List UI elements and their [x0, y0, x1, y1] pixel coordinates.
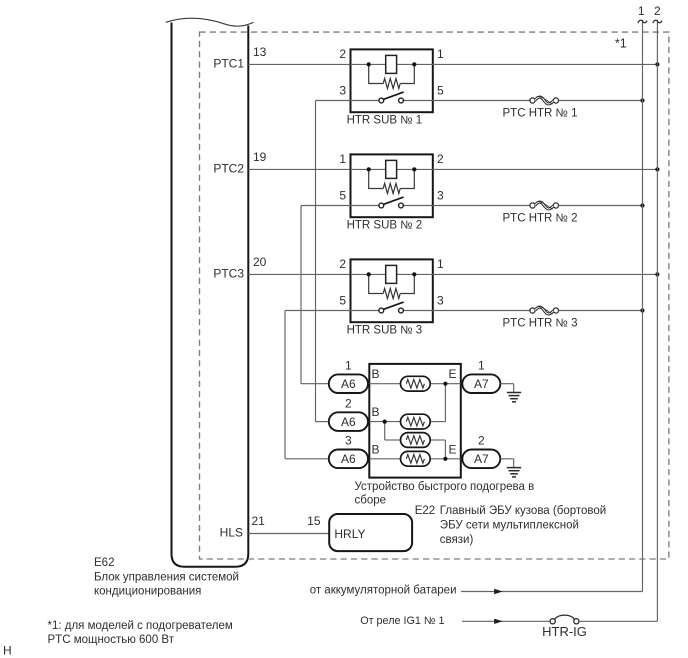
wire relay 1 switch to A6 pin 2 (vertical drop)	[315, 101, 317, 422]
wire heater row 1 left	[369, 383, 400, 385]
svg-text:От реле IG1 № 1: От реле IG1 № 1	[360, 615, 444, 627]
svg-text:E22: E22	[415, 505, 435, 517]
wire relay 3 switch to A6 pin 3 (vertical drop)	[284, 311, 286, 459]
svg-text:PTC мощностью 600 Вт: PTC мощностью 600 Вт	[48, 634, 175, 646]
junction dot on vertical net 2 row 1	[655, 62, 659, 66]
heater element resistor 2	[401, 414, 431, 429]
relay 3 switch blade	[383, 302, 404, 310]
svg-text:1: 1	[478, 359, 485, 373]
svg-text:B: B	[372, 405, 380, 419]
wire fusible link 1 to net 1	[559, 100, 643, 102]
relay 1 resistor zigzag	[383, 79, 400, 89]
connector A6 pin 1	[329, 374, 368, 393]
net 1 vertical wire (battery feed)	[642, 20, 644, 592]
svg-text:20: 20	[253, 255, 267, 269]
svg-text:2: 2	[654, 4, 661, 18]
wire switch row inside relay 2 left	[351, 205, 379, 207]
wire PTC1 pin 13 to relay coil	[248, 63, 350, 65]
wire relay 3 switch to A6 pin 3 (horizontal from relay)	[285, 310, 351, 312]
E62 A/C control ECU connector outline	[172, 23, 249, 567]
junction dot relay 3 coil right	[412, 272, 416, 276]
svg-text:от аккумуляторной батареи: от аккумуляторной батареи	[310, 584, 457, 596]
wire A7 pin 2 to ground	[500, 458, 513, 460]
junction dot relay 1 coil left	[367, 62, 371, 66]
svg-text:PTC HTR № 3: PTC HTR № 3	[503, 318, 578, 330]
relay 3 resistor zigzag	[383, 289, 400, 299]
heater element resistor 1	[401, 376, 431, 391]
svg-text:E: E	[449, 367, 457, 381]
svg-text:A7: A7	[474, 377, 489, 391]
svg-text:E62: E62	[94, 557, 114, 569]
wire relay 2 switch output to fusible link	[433, 205, 530, 207]
wire B-node vertical rows 2-3	[384, 422, 386, 440]
wire relay 2 coil output to net 2	[433, 168, 658, 170]
junction dot on vertical net 1 row 3	[640, 308, 644, 312]
svg-text:13: 13	[253, 45, 267, 59]
net 2 vertical wire (IG1 feed)	[656, 20, 658, 622]
svg-text:5: 5	[339, 188, 346, 202]
wire heater row 3 right	[430, 439, 445, 441]
wire heater row 1 right to E node	[430, 383, 461, 385]
continuation squiggle net 2	[653, 20, 662, 23]
wire PTC3 pin 20 to relay coil	[248, 273, 350, 275]
arrow battery feed	[494, 589, 502, 594]
fusible link PTC HTR № 2	[530, 203, 535, 208]
svg-text:PTC HTR № 2: PTC HTR № 2	[503, 213, 578, 225]
relay 1 parallel resistor loop	[369, 64, 384, 83]
wire relay 2 switch to A6 pin 1 (vertical drop)	[300, 206, 302, 384]
relay 3 switch contact right	[399, 308, 404, 313]
svg-text:HTR SUB № 3: HTR SUB № 3	[347, 325, 423, 337]
relay 1 switch blade	[383, 92, 404, 100]
svg-text:PTC3: PTC3	[213, 267, 244, 281]
svg-text:E: E	[449, 442, 457, 456]
svg-text:связи): связи)	[440, 534, 474, 546]
svg-text:2: 2	[345, 396, 352, 410]
svg-text:1: 1	[437, 47, 444, 61]
heater element resistor 4	[401, 451, 431, 466]
svg-text:1: 1	[345, 359, 352, 373]
svg-text:B: B	[372, 367, 380, 381]
relay 3 switch contact left	[379, 308, 384, 313]
fusible link PTC HTR № 3	[530, 308, 535, 313]
junction dot relay 3 coil left	[367, 272, 371, 276]
wire coil row inside relay 1	[351, 63, 433, 65]
junction dot B node row2	[383, 420, 387, 424]
svg-text:B: B	[372, 442, 380, 456]
wire relay 1 switch output to fusible link	[433, 100, 530, 102]
junction dot relay 2 coil left	[367, 167, 371, 171]
svg-text:15: 15	[307, 514, 321, 528]
svg-text:1: 1	[638, 4, 645, 18]
wire switch row inside relay 3 left	[351, 310, 379, 312]
junction dot relay 2 coil right	[412, 167, 416, 171]
wire heater row 4 right to E node	[430, 458, 461, 460]
svg-text:21: 21	[252, 514, 266, 528]
relay 2 switch contact right	[399, 203, 404, 208]
relay 2 parallel resistor loop	[369, 169, 384, 188]
relay 1 coil winding	[386, 55, 397, 73]
svg-text:кондиционирования: кондиционирования	[94, 585, 201, 597]
relay U3 HTR SUB № 3 box	[351, 259, 433, 322]
svg-text:HRLY: HRLY	[334, 527, 365, 541]
svg-text:Устройство быстрого подогрева: Устройство быстрого подогрева в	[355, 481, 535, 493]
wire PTC2 pin 19 to relay coil	[248, 168, 350, 170]
junction dot E node row1	[443, 382, 447, 386]
svg-text:5: 5	[339, 293, 346, 307]
svg-text:A7: A7	[474, 452, 489, 466]
wire fusible link 3 to net 1	[559, 310, 643, 312]
relay 3 coil winding	[386, 265, 397, 283]
junction dot on vertical net 1 row 1	[640, 98, 644, 102]
svg-text:сборе: сборе	[355, 495, 387, 507]
relay 3 parallel resistor loop	[369, 274, 384, 293]
svg-text:1: 1	[339, 152, 346, 166]
wire relay 3 coil output to net 2	[433, 273, 658, 275]
wire coil row inside relay 3	[351, 273, 433, 275]
dashed option box (*1 600W PTC heater models)	[200, 32, 669, 559]
junction dot on vertical net 2 row 2	[655, 167, 659, 171]
svg-text:PTC2: PTC2	[213, 162, 244, 176]
wire relay 2 switch to A6 pin 1 (horizontal from relay)	[301, 205, 351, 207]
ground symbol 1	[507, 392, 521, 394]
relay 2 switch blade	[383, 197, 404, 205]
fuse HTR-IG	[550, 619, 555, 624]
svg-text:A6: A6	[341, 415, 356, 429]
connector A6 pin 3	[329, 450, 368, 469]
arrow IG1 feed	[494, 619, 502, 624]
E62 torn-edge wavy top	[166, 18, 254, 26]
svg-text:2: 2	[478, 434, 485, 448]
wire heater row 4 left	[369, 458, 400, 460]
relay U1 HTR SUB № 1 box	[351, 49, 433, 112]
wire coil row inside relay 2	[351, 168, 433, 170]
wire heater row 2 left	[369, 421, 400, 423]
wire switch row inside relay 3 right	[403, 310, 432, 312]
wire E-node vertical rows 1-2	[444, 384, 446, 422]
wire vertical rows 3-4	[444, 440, 446, 459]
relay 2 switch contact left	[379, 203, 384, 208]
wire HLS pin 21 to HRLY pin 15	[248, 533, 329, 535]
junction dot on vertical net 2 row 3	[655, 272, 659, 276]
svg-text:Главный ЭБУ кузова (бортовой: Главный ЭБУ кузова (бортовой	[440, 505, 606, 517]
ground symbol 2	[507, 467, 521, 469]
svg-text:3: 3	[339, 83, 346, 97]
wire heater row 2 right	[430, 421, 445, 423]
connector A7 pin 2	[462, 450, 500, 469]
svg-text:ЭБУ сети мультиплексной: ЭБУ сети мультиплексной	[440, 520, 579, 532]
relay block HRLY	[329, 514, 412, 551]
svg-text:A6: A6	[341, 377, 356, 391]
svg-text:PTC HTR № 1: PTC HTR № 1	[503, 108, 578, 120]
junction dot relay 1 coil right	[412, 62, 416, 66]
svg-text:HLS: HLS	[220, 526, 243, 540]
wire heater row 3 left	[385, 439, 401, 441]
junction dot on vertical net 1 row 2	[640, 203, 644, 207]
wire IG1 feed right to net 2	[579, 620, 657, 622]
relay U2 HTR SUB № 2 box	[351, 154, 433, 217]
wire switch row inside relay 1 left	[351, 100, 379, 102]
svg-text:HTR-IG: HTR-IG	[542, 624, 587, 639]
svg-text:PTC1: PTC1	[213, 57, 244, 71]
svg-text:*1: для моделей с подогревател: *1: для моделей с подогревателем	[48, 620, 233, 632]
junction dot E node row4	[443, 457, 447, 461]
svg-text:HTR SUB № 1: HTR SUB № 1	[347, 115, 423, 127]
wire battery feed	[461, 591, 643, 593]
svg-text:2: 2	[339, 47, 346, 61]
svg-text:Блок управления системой: Блок управления системой	[94, 571, 239, 583]
svg-text:H: H	[3, 643, 12, 657]
relay 2 coil winding	[386, 160, 397, 178]
wire relay 3 switch to A6 pin 3 (into connector)	[285, 458, 329, 460]
wire relay 3 switch output to fusible link	[433, 310, 530, 312]
wire relay 1 switch to A6 pin 2 (into connector)	[316, 421, 329, 423]
svg-text:3: 3	[345, 434, 352, 448]
relay 2 resistor zigzag	[383, 184, 400, 194]
wire A7 pin 1 to ground	[500, 383, 513, 385]
svg-text:5: 5	[437, 83, 444, 97]
continuation squiggle net 1	[638, 20, 647, 23]
svg-text:2: 2	[339, 257, 346, 271]
connector A6 pin 2	[329, 412, 368, 431]
connector A7 pin 1	[462, 374, 500, 393]
relay 1 switch contact right	[399, 98, 404, 103]
wire relay 1 coil output to net 2	[433, 63, 658, 65]
svg-text:19: 19	[253, 150, 267, 164]
quick heater assembly box	[369, 364, 461, 478]
heater element resistor 3	[401, 433, 431, 448]
svg-text:3: 3	[437, 188, 444, 202]
svg-text:*1: *1	[615, 36, 627, 50]
fusible link PTC HTR № 1	[530, 98, 535, 103]
relay 1 switch contact left	[379, 98, 384, 103]
wire fusible link 2 to net 1	[559, 205, 643, 207]
svg-text:3: 3	[437, 293, 444, 307]
svg-text:1: 1	[437, 257, 444, 271]
svg-text:2: 2	[437, 152, 444, 166]
svg-text:A6: A6	[341, 452, 356, 466]
svg-text:HTR SUB № 2: HTR SUB № 2	[347, 220, 423, 232]
wire switch row inside relay 1 right	[403, 100, 432, 102]
wire switch row inside relay 2 right	[403, 205, 432, 207]
wire relay 1 switch to A6 pin 2 (horizontal from relay)	[316, 100, 351, 102]
wire relay 2 switch to A6 pin 1 (into connector)	[301, 383, 329, 385]
wire IG1 feed left	[462, 620, 550, 622]
